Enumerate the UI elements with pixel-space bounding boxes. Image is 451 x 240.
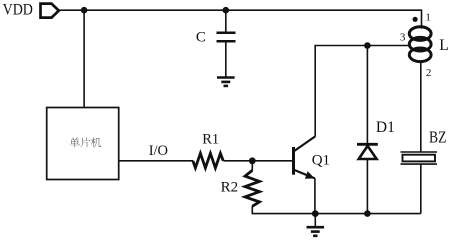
svg-text:BZ: BZ: [429, 128, 446, 147]
svg-text:C: C: [196, 30, 206, 46]
svg-text:R2: R2: [221, 180, 239, 196]
svg-text:3: 3: [400, 31, 406, 43]
svg-text:L: L: [439, 37, 448, 54]
svg-text:R1: R1: [202, 132, 219, 148]
svg-text:Q1: Q1: [312, 153, 330, 169]
svg-text:VDD: VDD: [3, 2, 33, 19]
svg-text:D1: D1: [376, 119, 395, 136]
svg-text:I/O: I/O: [149, 143, 168, 159]
svg-text:2: 2: [426, 67, 432, 79]
svg-text:1: 1: [425, 11, 431, 23]
